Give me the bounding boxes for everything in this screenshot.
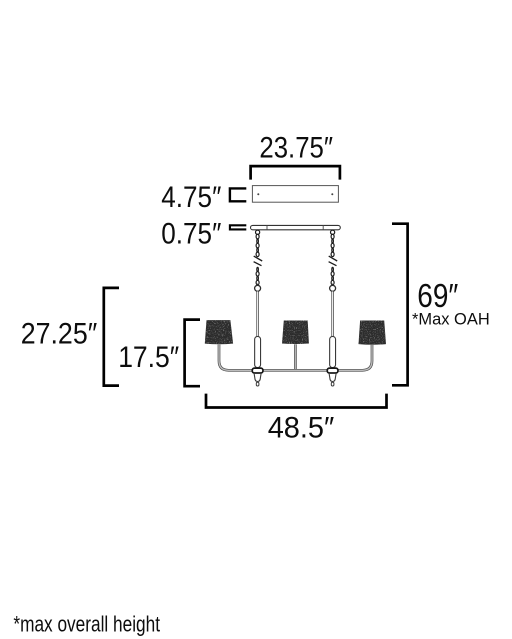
rod assembly left — [252, 284, 263, 386]
dimension bracket 17.5 fixture height — [185, 320, 200, 387]
mounting bar — [251, 225, 341, 229]
shade left — [205, 320, 233, 344]
arm assembly tube — [219, 345, 372, 371]
bar tick right — [322, 226, 324, 230]
svg-text:48.5″: 48.5″ — [268, 411, 335, 444]
bar loop right — [331, 230, 335, 234]
bar loop left — [256, 230, 260, 234]
chain right — [329, 234, 338, 285]
chain left — [254, 234, 263, 285]
svg-text:4.75″: 4.75″ — [161, 181, 221, 214]
svg-text:17.5″: 17.5″ — [118, 341, 179, 374]
dimension bracket 4.75 canopy height — [230, 188, 246, 201]
rod assembly right — [327, 284, 338, 386]
shade middle — [282, 321, 309, 345]
canopy plate — [252, 186, 338, 203]
shade right — [359, 321, 387, 345]
dimension bracket 69 max overall height — [392, 224, 408, 386]
dimension bracket 23.75 canopy width — [251, 166, 340, 180]
canopy screw left — [257, 193, 259, 195]
dimension bracket 0.75 bar height — [230, 225, 246, 229]
svg-text:27.25″: 27.25″ — [21, 318, 98, 351]
svg-text:*max overall height: *max overall height — [13, 611, 160, 636]
svg-text:23.75″: 23.75″ — [259, 131, 333, 164]
svg-text:*Max OAH: *Max OAH — [412, 310, 490, 329]
dimension bracket 48.5 fixture width — [206, 394, 387, 408]
canopy screw right — [331, 193, 333, 195]
bar tick left — [266, 226, 268, 230]
center stem — [294, 344, 297, 369]
dimension bracket 27.25 min height — [104, 288, 119, 386]
svg-text:0.75″: 0.75″ — [161, 217, 221, 250]
